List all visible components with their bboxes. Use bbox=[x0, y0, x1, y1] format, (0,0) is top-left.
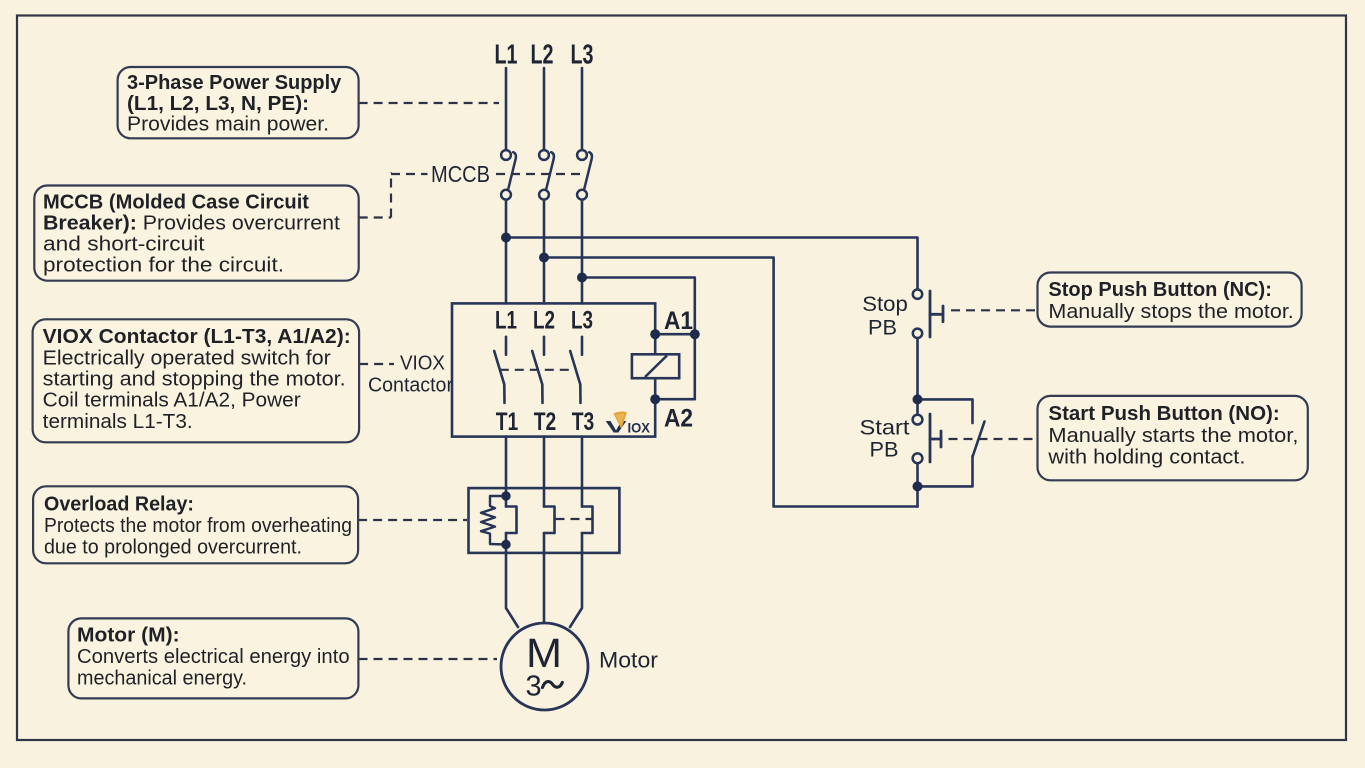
svg-text:Breaker): Provides overcurrent: Breaker): Provides overcurrent bbox=[43, 213, 340, 235]
svg-text:3: 3 bbox=[526, 671, 542, 703]
svg-text:L3: L3 bbox=[571, 307, 593, 335]
svg-text:L3: L3 bbox=[571, 39, 594, 70]
svg-text:Contactor: Contactor bbox=[368, 375, 453, 397]
svg-text:3-Phase Power Supply: 3-Phase Power Supply bbox=[127, 72, 342, 94]
svg-text:A1: A1 bbox=[664, 307, 693, 335]
svg-text:Motor: Motor bbox=[599, 648, 658, 673]
svg-text:mechanical energy.: mechanical energy. bbox=[77, 668, 247, 690]
svg-text:Provides main power.: Provides main power. bbox=[127, 114, 329, 136]
svg-text:Overload Relay:: Overload Relay: bbox=[44, 493, 194, 515]
svg-text:Electrically operated switch f: Electrically operated switch for bbox=[43, 347, 331, 369]
svg-text:due to prolonged overcurrent.: due to prolonged overcurrent. bbox=[44, 536, 302, 558]
svg-text:Protects the motor from overhe: Protects the motor from overheating bbox=[44, 515, 352, 537]
svg-text:VIOX: VIOX bbox=[400, 353, 445, 375]
svg-text:(L1, L2, L3, N, PE):: (L1, L2, L3, N, PE): bbox=[127, 93, 309, 115]
svg-text:T1: T1 bbox=[496, 408, 519, 436]
svg-text:VIOX Contactor (L1-T3, A1/A2):: VIOX Contactor (L1-T3, A1/A2): bbox=[43, 326, 351, 348]
svg-text:Stop: Stop bbox=[862, 292, 908, 316]
svg-text:Manually starts the motor,: Manually starts the motor, bbox=[1048, 425, 1298, 447]
svg-text:Start: Start bbox=[860, 416, 910, 440]
svg-text:Manually stops the motor.: Manually stops the motor. bbox=[1048, 301, 1293, 323]
svg-text:protection for the circuit.: protection for the circuit. bbox=[43, 255, 284, 277]
svg-text:Motor (M):: Motor (M): bbox=[77, 625, 180, 647]
svg-text:T3: T3 bbox=[572, 408, 595, 436]
svg-text:V: V bbox=[606, 418, 628, 437]
svg-text:L2: L2 bbox=[533, 307, 555, 335]
svg-text:Start Push Button (NO):: Start Push Button (NO): bbox=[1048, 403, 1279, 425]
svg-text:Stop Push Button (NC):: Stop Push Button (NC): bbox=[1048, 279, 1272, 301]
svg-text:MCCB (Molded Case Circuit: MCCB (Molded Case Circuit bbox=[43, 192, 309, 214]
svg-text:L2: L2 bbox=[531, 39, 554, 70]
svg-text:starting and stopping the moto: starting and stopping the motor. bbox=[43, 369, 346, 391]
svg-text:and short-circuit: and short-circuit bbox=[43, 234, 205, 256]
svg-text:T2: T2 bbox=[534, 408, 557, 436]
svg-text:M: M bbox=[526, 630, 562, 676]
svg-text:L1: L1 bbox=[495, 307, 517, 335]
svg-text:PB: PB bbox=[870, 438, 899, 462]
svg-text:Converts electrical energy int: Converts electrical energy into bbox=[77, 646, 350, 668]
svg-text:PB: PB bbox=[868, 316, 897, 340]
svg-text:terminals L1-T3.: terminals L1-T3. bbox=[43, 411, 193, 433]
svg-text:L1: L1 bbox=[495, 39, 518, 70]
svg-text:Coil terminals A1/A2, Power: Coil terminals A1/A2, Power bbox=[43, 390, 301, 412]
svg-text:MCCB: MCCB bbox=[431, 161, 490, 187]
svg-text:with holding contact.: with holding contact. bbox=[1047, 447, 1245, 469]
svg-text:IOX: IOX bbox=[628, 420, 651, 436]
svg-text:A2: A2 bbox=[664, 405, 693, 433]
